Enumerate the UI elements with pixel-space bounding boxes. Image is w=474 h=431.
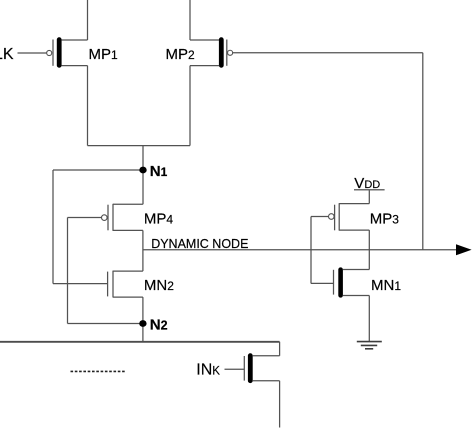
wire INk source down <box>279 381 281 428</box>
transistor MN2 gate line <box>107 272 109 297</box>
wire bottom rail <box>0 341 280 343</box>
wire dashed continuation <box>71 370 127 372</box>
transistor MP3 gate line <box>334 205 336 231</box>
transistor MP3 gate bubble <box>329 214 335 220</box>
wire MN1 source to ground <box>368 296 370 342</box>
svg-text:N1: N1 <box>150 163 168 180</box>
transistor MN1 source contact <box>343 295 369 297</box>
wire MN1 gate horizontal <box>311 282 333 284</box>
wire INk gate <box>225 368 245 370</box>
wire MP3 gate horizontal <box>311 216 329 218</box>
wire MP2 gate feedback horizontal <box>233 52 423 54</box>
svg-text:MP2: MP2 <box>166 46 196 63</box>
wire MP1 source to top edge <box>87 0 89 40</box>
wire MP4 gate horizontal <box>68 217 102 219</box>
svg-text:MN2: MN2 <box>144 277 174 294</box>
transistor MP1 drain contact <box>61 65 87 67</box>
wire inner column vertical N2 to MP4 gate <box>67 218 69 324</box>
transistor INk source contact <box>253 380 280 382</box>
transistor MP3 drain contact <box>339 229 369 231</box>
wire MP1 drain down <box>87 66 89 146</box>
wire MP2 source to top edge <box>189 0 191 40</box>
transistor INk drain contact <box>253 355 280 357</box>
transistor MP2 channel bar <box>219 37 224 67</box>
svg-text:MN1: MN1 <box>371 277 401 294</box>
transistor MP2 gate line <box>226 40 228 66</box>
svg-text:CLK: CLK <box>0 46 14 63</box>
transistor MP1 gate line <box>52 40 54 66</box>
ground bar 2 <box>361 344 377 346</box>
wire MP3 drain to MN1 drain <box>368 230 370 269</box>
transistor MP2 source contact <box>190 39 219 41</box>
svg-text:N2: N2 <box>150 317 168 334</box>
transistor MP4 source contact <box>113 203 143 205</box>
node N2 junction dot <box>139 320 146 327</box>
wire VDD stub <box>368 190 370 203</box>
svg-text:MP1: MP1 <box>89 46 119 63</box>
wire dynamic node horizontal <box>143 249 458 251</box>
ground bar 3 <box>365 348 373 350</box>
wire down to node N1 <box>142 146 144 205</box>
transistor INk gate line <box>243 356 245 381</box>
wire left column vertical N1 to MN2 gate <box>52 170 54 284</box>
VDD underline <box>354 189 385 191</box>
ground bar 1 <box>357 341 382 343</box>
transistor MN1 drain contact <box>343 269 369 271</box>
node N1 junction dot <box>139 167 146 174</box>
transistor MP2 drain contact <box>190 65 219 67</box>
wire node N1 to left column <box>53 169 143 171</box>
wire MP3 MN1 gate column <box>310 217 312 284</box>
transistor MP4 body <box>112 204 114 231</box>
svg-text:DYNAMIC NODE: DYNAMIC NODE <box>151 237 248 251</box>
wire joining MP1 and MP2 drains <box>88 145 191 147</box>
transistor MP2 gate bubble <box>228 50 233 55</box>
transistor MN2 source contact <box>113 296 143 298</box>
CLK input wire <box>18 52 47 54</box>
transistor MN1 gate line <box>333 270 335 295</box>
transistor MP1 gate bubble <box>47 50 52 55</box>
svg-text:MP4: MP4 <box>144 211 174 228</box>
transistor MP4 gate bubble <box>102 215 108 221</box>
wire feedback vertical to output node <box>422 53 424 250</box>
transistor MP4 drain contact <box>113 229 143 231</box>
transistor MN2 drain contact <box>113 270 143 272</box>
transistor MP1 source contact <box>61 39 87 41</box>
transistor MP3 body <box>338 203 340 230</box>
transistor MP4 gate line <box>107 205 109 231</box>
wire MP4 drain to MN2 drain trunk <box>142 230 144 271</box>
svg-text:INK: INK <box>196 362 220 379</box>
transistor MP3 source contact <box>339 203 369 205</box>
svg-text:MP3: MP3 <box>370 210 400 227</box>
transistor INk channel bar <box>248 353 253 383</box>
wire INk drain to rail <box>279 342 281 356</box>
transistor MP1 channel bar <box>57 37 62 67</box>
wire MN2 source to node N2 and rail <box>142 297 144 342</box>
wire MN2 gate horizontal <box>53 283 108 285</box>
transistor MN2 body <box>112 271 114 298</box>
wire node N2 to inner column <box>68 323 143 325</box>
output arrowhead <box>456 244 472 255</box>
transistor MN1 channel bar <box>338 267 343 297</box>
wire MP2 drain down <box>189 66 191 146</box>
